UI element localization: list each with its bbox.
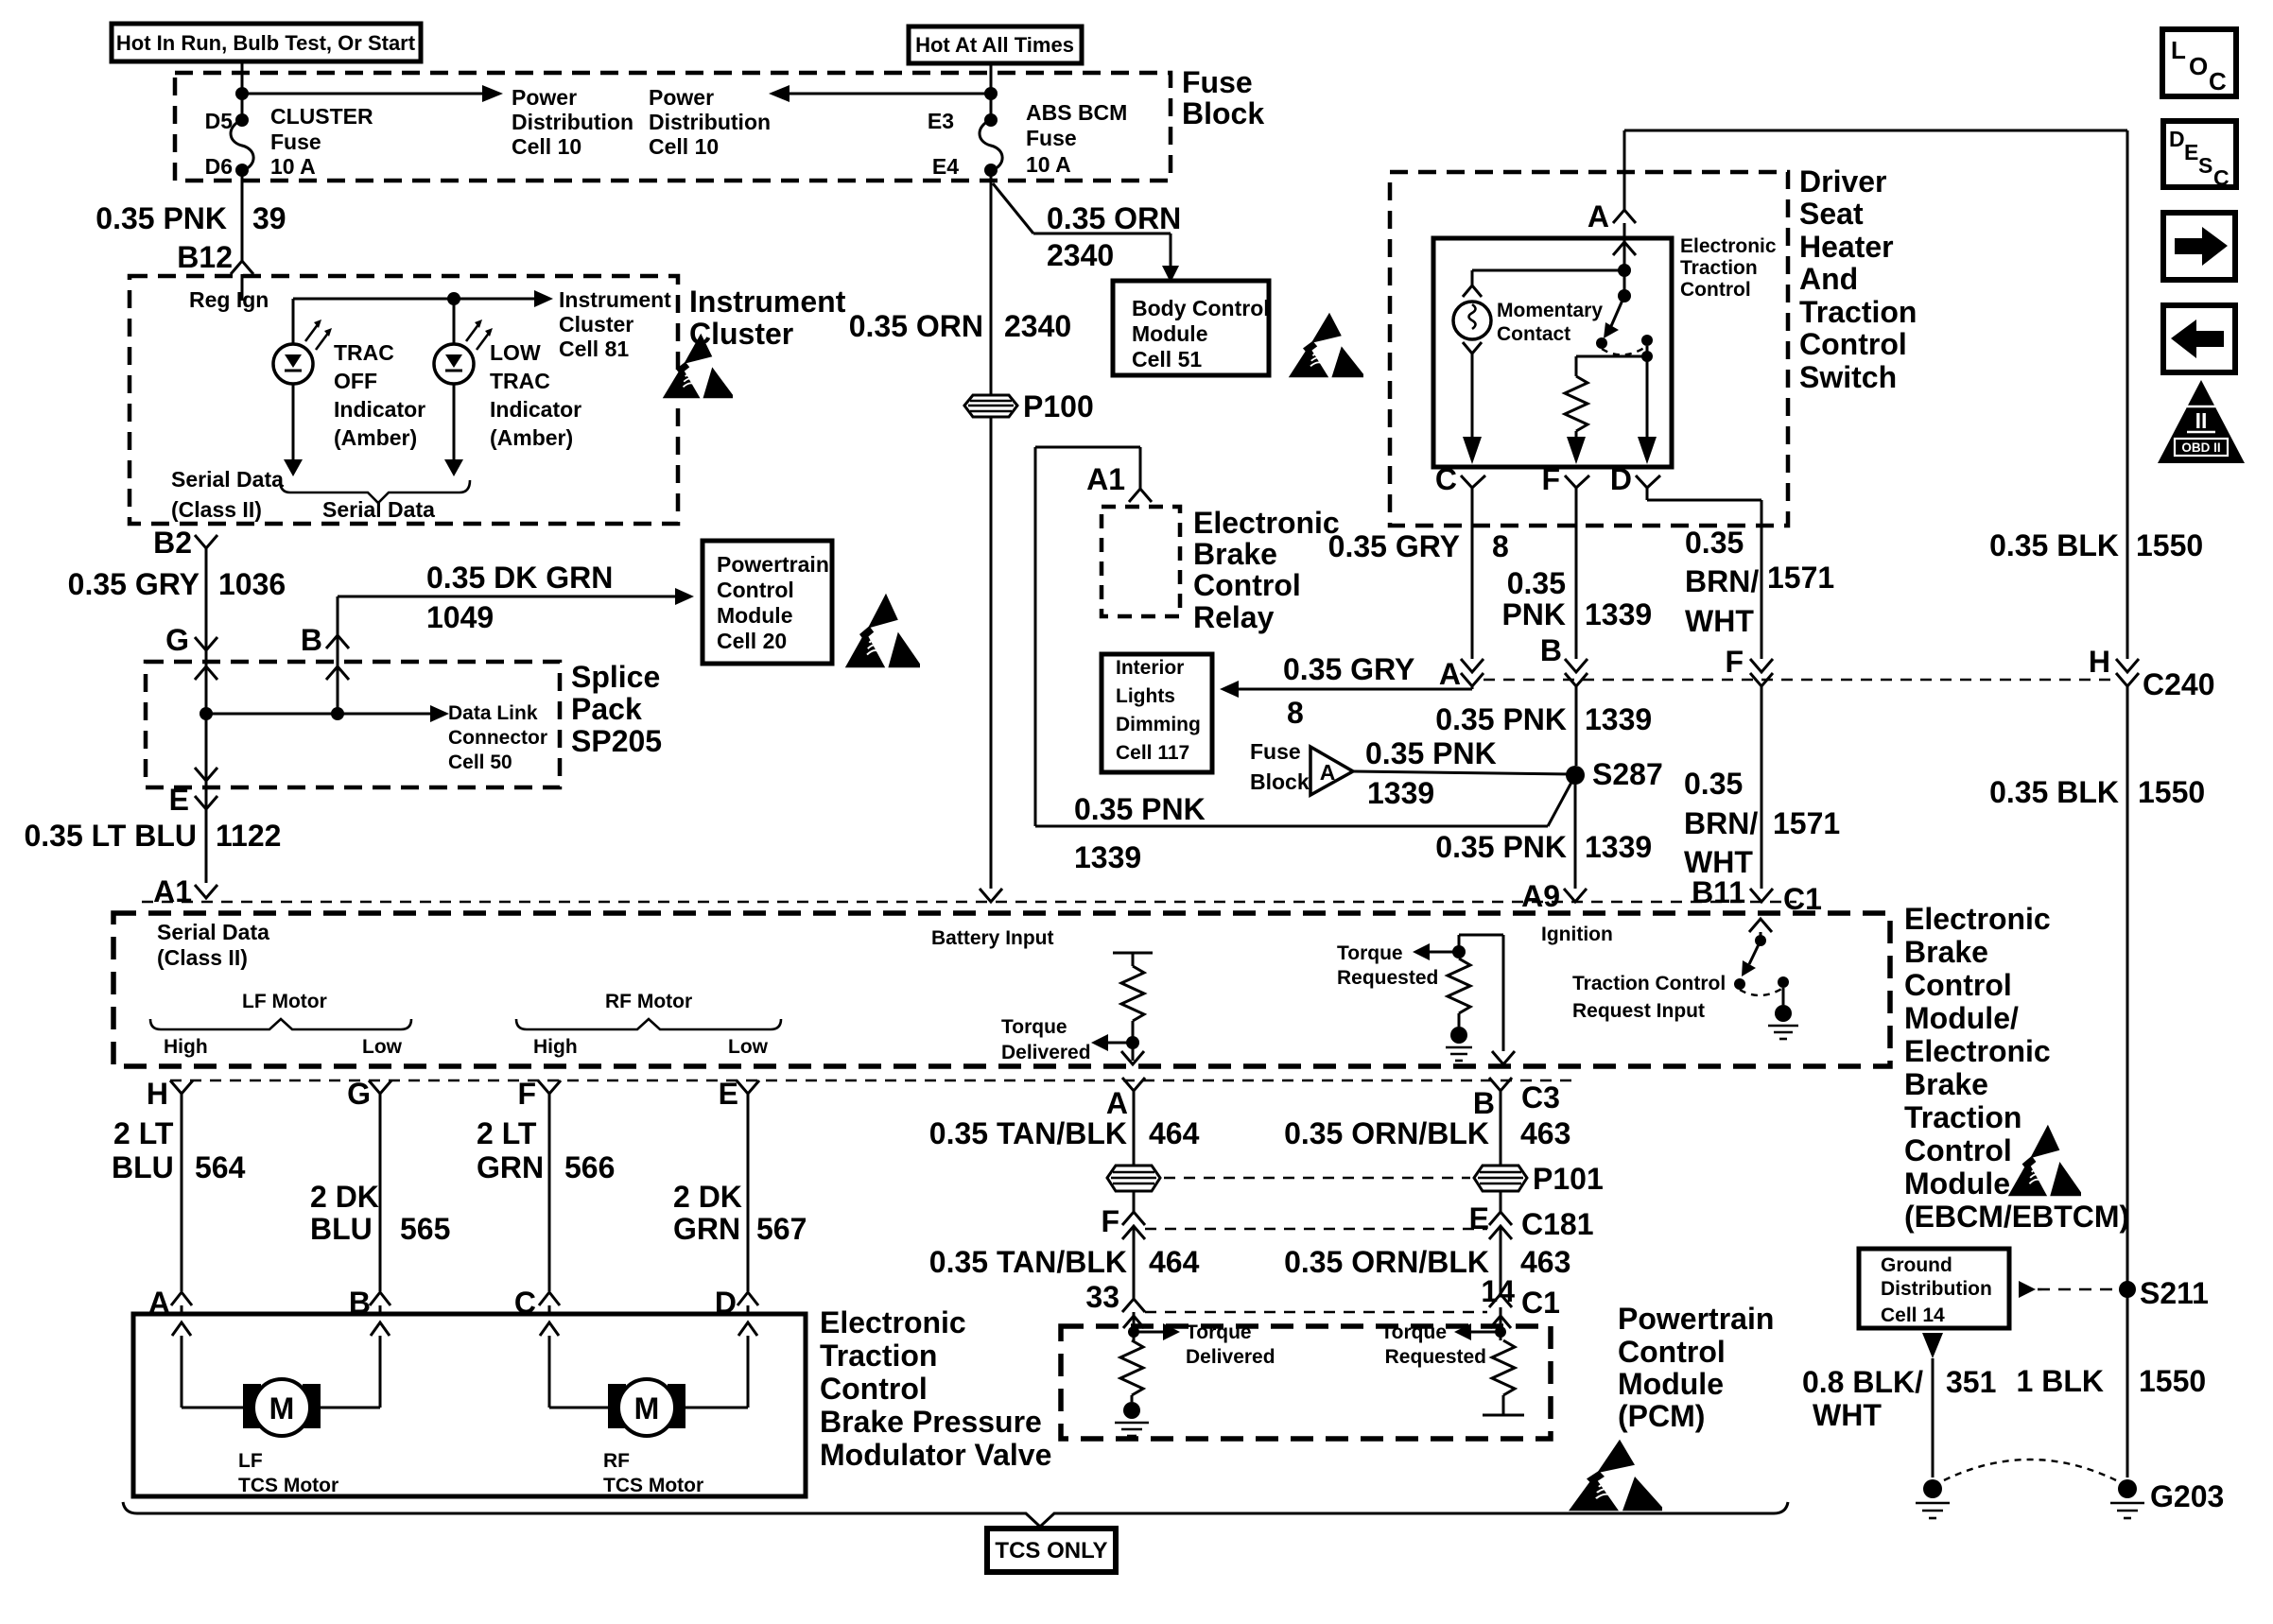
svg-text:Brake: Brake [1904,935,1988,969]
svg-text:Switch: Switch [1799,360,1897,394]
svg-text:C3: C3 [1521,1080,1560,1114]
svg-text:A9: A9 [1521,879,1560,913]
svg-text:1339: 1339 [1367,776,1434,810]
svg-text:0.35 ORN: 0.35 ORN [849,309,983,343]
svg-text:1550: 1550 [2136,528,2203,562]
svg-text:0.35 PNK: 0.35 PNK [1435,830,1567,864]
svg-text:1339: 1339 [1585,830,1652,864]
svg-text:CLUSTER: CLUSTER [270,104,373,129]
svg-text:E: E [2184,140,2198,164]
svg-text:A: A [1106,1086,1128,1120]
svg-text:Powertrain: Powertrain [1618,1302,1774,1336]
svg-text:E: E [719,1077,738,1111]
svg-text:0.35 DK GRN: 0.35 DK GRN [426,561,613,595]
svg-text:H: H [2089,645,2110,679]
svg-text:Battery Input: Battery Input [931,927,1054,949]
svg-text:2 LT: 2 LT [113,1116,174,1150]
svg-text:LF: LF [238,1450,263,1472]
svg-text:8: 8 [1492,529,1509,563]
svg-text:1339: 1339 [1585,597,1652,631]
svg-text:Indicator: Indicator [490,397,581,422]
svg-text:10 A: 10 A [1026,152,1071,177]
svg-text:Cell 50: Cell 50 [448,752,512,773]
svg-text:BRN/: BRN/ [1685,564,1759,598]
svg-text:Module: Module [1618,1367,1724,1401]
svg-text:2 LT: 2 LT [477,1116,537,1150]
svg-text:Fuse: Fuse [1182,65,1253,99]
svg-text:1571: 1571 [1773,806,1840,840]
svg-text:Traction: Traction [1680,257,1758,279]
svg-text:E3: E3 [928,109,954,133]
svg-text:0.35 ORN/BLK: 0.35 ORN/BLK [1284,1245,1489,1279]
svg-text:Interior: Interior [1116,657,1184,679]
svg-text:Control: Control [1904,1133,2012,1167]
svg-text:Serial Data: Serial Data [322,497,435,522]
svg-text:S287: S287 [1592,757,1663,791]
svg-text:Torque: Torque [1337,942,1403,964]
svg-text:(EBCM/EBTCM): (EBCM/EBTCM) [1904,1200,2129,1234]
svg-text:0.35 PNK: 0.35 PNK [1365,736,1497,770]
svg-text:B: B [301,623,322,657]
svg-text:Traction: Traction [1799,295,1917,329]
svg-text:Cell 51: Cell 51 [1132,347,1202,371]
svg-text:Cell 10: Cell 10 [649,134,719,159]
svg-text:High: High [533,1036,578,1058]
svg-text:Control: Control [1799,327,1907,361]
svg-text:D5: D5 [205,109,234,133]
svg-text:0.35 LT BLU: 0.35 LT BLU [24,819,197,853]
svg-text:Relay: Relay [1193,600,1275,634]
svg-text:Traction Control: Traction Control [1572,973,1726,994]
svg-text:E: E [1469,1201,1489,1235]
svg-text:Request Input: Request Input [1572,1000,1705,1022]
svg-text:Traction: Traction [1904,1100,2021,1134]
svg-text:C240: C240 [2143,667,2215,701]
svg-text:BLU: BLU [310,1212,373,1246]
svg-text:Control: Control [1680,279,1751,301]
svg-text:Heater: Heater [1799,230,1894,264]
svg-text:Delivered: Delivered [1186,1346,1275,1368]
svg-text:Seat: Seat [1799,197,1864,231]
svg-text:TRAC: TRAC [490,369,550,393]
svg-text:(Class II): (Class II) [157,945,248,970]
svg-text:F: F [1725,645,1744,679]
svg-text:Fuse: Fuse [270,130,321,154]
svg-text:F: F [1541,462,1560,496]
svg-text:TCS Motor: TCS Motor [238,1475,338,1496]
svg-text:1 BLK: 1 BLK [2017,1364,2104,1398]
svg-text:Electronic: Electronic [1193,506,1340,540]
svg-text:Module: Module [1904,1166,2010,1201]
svg-text:G203: G203 [2150,1479,2224,1513]
svg-text:B: B [1473,1086,1495,1120]
svg-text:Cluster: Cluster [689,317,793,351]
svg-text:Low: Low [362,1036,403,1058]
svg-text:LF Motor: LF Motor [242,991,327,1012]
svg-text:2 DK: 2 DK [310,1180,379,1214]
svg-text:Electronic: Electronic [1680,235,1777,257]
svg-text:O: O [2189,52,2208,80]
svg-text:Lights: Lights [1116,685,1175,707]
svg-text:OBD II: OBD II [2181,441,2220,455]
svg-text:S: S [2198,153,2212,178]
svg-text:G: G [347,1077,371,1111]
svg-text:A1: A1 [153,874,192,908]
svg-text:F: F [517,1077,536,1111]
svg-text:G: G [165,623,189,657]
svg-text:P101: P101 [1533,1162,1604,1196]
svg-text:Fuse: Fuse [1250,739,1301,764]
svg-text:1339: 1339 [1074,840,1141,874]
svg-text:Ignition: Ignition [1541,924,1613,945]
svg-text:A: A [1588,199,1609,233]
svg-text:Control: Control [717,578,794,602]
svg-text:A: A [1439,657,1461,691]
svg-text:464: 464 [1149,1245,1200,1279]
svg-text:564: 564 [195,1150,246,1184]
svg-text:Body Control: Body Control [1132,296,1270,320]
svg-text:L: L [2171,36,2186,64]
svg-text:1571: 1571 [1767,561,1834,595]
svg-text:Control: Control [1904,968,2012,1002]
svg-text:Powertrain: Powertrain [717,552,829,577]
svg-text:8: 8 [1287,696,1304,730]
svg-text:GRN: GRN [673,1212,740,1246]
svg-text:14: 14 [1481,1274,1515,1308]
svg-text:C181: C181 [1521,1207,1594,1241]
svg-text:Instrument: Instrument [689,285,846,319]
svg-text:0.35 GRY: 0.35 GRY [68,567,200,601]
svg-text:S211: S211 [2140,1276,2209,1310]
svg-text:Torque: Torque [1001,1016,1067,1038]
svg-text:GRN: GRN [477,1150,544,1184]
svg-text:Torque: Torque [1380,1322,1447,1343]
svg-text:Cell 81: Cell 81 [559,337,629,361]
svg-text:1049: 1049 [426,600,494,634]
svg-text:Distribution: Distribution [1881,1278,1992,1300]
svg-text:33: 33 [1085,1280,1119,1314]
svg-text:Reg Ign: Reg Ign [189,287,269,312]
svg-text:Control: Control [820,1372,928,1406]
svg-text:0.35 ORN/BLK: 0.35 ORN/BLK [1284,1116,1489,1150]
svg-text:0.35: 0.35 [1685,526,1744,560]
svg-text:ABS BCM: ABS BCM [1026,100,1127,125]
svg-text:1339: 1339 [1585,702,1652,736]
svg-text:351: 351 [1946,1365,1996,1399]
svg-text:2340: 2340 [1047,238,1114,272]
svg-text:D6: D6 [205,154,233,179]
svg-text:0.35 PNK: 0.35 PNK [1074,792,1206,826]
svg-text:Control: Control [1618,1335,1726,1369]
svg-text:H: H [147,1077,168,1111]
svg-text:Delivered: Delivered [1001,1042,1091,1063]
svg-text:Ground: Ground [1881,1254,1952,1276]
svg-text:Contact: Contact [1497,323,1570,345]
svg-text:1550: 1550 [2139,1364,2206,1398]
svg-text:Brake: Brake [1193,537,1277,571]
svg-text:B2: B2 [153,526,192,560]
svg-text:Dimming: Dimming [1116,714,1201,735]
svg-text:Electronic: Electronic [820,1305,966,1339]
svg-text:OFF: OFF [334,369,377,393]
svg-text:(Amber): (Amber) [490,425,573,450]
svg-text:10 A: 10 A [270,154,316,179]
svg-text:SP205: SP205 [571,724,662,758]
svg-text:WHT: WHT [1685,604,1754,638]
svg-text:0.35 TAN/BLK: 0.35 TAN/BLK [929,1245,1127,1279]
svg-text:B12: B12 [177,240,233,274]
svg-text:Splice: Splice [571,660,660,694]
svg-text:RF Motor: RF Motor [605,991,692,1012]
svg-text:C1: C1 [1521,1286,1560,1320]
svg-text:Distribution: Distribution [512,110,633,134]
svg-text:2 DK: 2 DK [673,1180,742,1214]
svg-text:Power: Power [512,85,577,110]
svg-text:Block: Block [1250,769,1310,794]
svg-text:D: D [1610,462,1632,496]
svg-text:Connector: Connector [448,727,547,749]
svg-text:Instrument: Instrument [559,287,671,312]
svg-text:And: And [1799,262,1858,296]
svg-text:A: A [1320,760,1336,785]
svg-text:A1: A1 [1086,462,1125,496]
svg-text:Cell 14: Cell 14 [1881,1304,1945,1326]
svg-text:Traction: Traction [820,1339,937,1373]
svg-text:Torque: Torque [1186,1322,1252,1343]
svg-text:Fuse: Fuse [1026,126,1077,150]
svg-text:PNK: PNK [1501,597,1566,631]
svg-text:Serial Data: Serial Data [157,920,269,944]
svg-text:463: 463 [1520,1116,1570,1150]
svg-text:Cell 117: Cell 117 [1116,742,1189,764]
svg-text:RF: RF [603,1450,630,1472]
svg-text:E: E [169,783,189,817]
svg-text:Module: Module [717,603,793,628]
svg-text:Brake Pressure: Brake Pressure [820,1405,1042,1439]
svg-text:0.35 BLK: 0.35 BLK [1989,775,2119,809]
svg-text:Power: Power [649,85,714,110]
svg-text:Cluster: Cluster [559,312,633,337]
svg-text:2340: 2340 [1004,309,1071,343]
svg-text:Hot At All Times: Hot At All Times [915,33,1074,57]
svg-text:Cell 10: Cell 10 [512,134,581,159]
svg-text:0.35: 0.35 [1507,566,1566,600]
svg-text:Pack: Pack [571,692,642,726]
svg-text:Cell 20: Cell 20 [717,629,787,653]
svg-text:Control: Control [1193,568,1301,602]
svg-text:B11: B11 [1692,875,1745,909]
svg-text:0.35 PNK: 0.35 PNK [95,201,227,235]
svg-text:WHT: WHT [1813,1398,1882,1432]
svg-text:567: 567 [756,1212,807,1246]
svg-text:1550: 1550 [2138,775,2205,809]
svg-text:C: C [1435,462,1457,496]
svg-text:39: 39 [252,201,286,235]
svg-text:(Amber): (Amber) [334,425,417,450]
svg-text:Electronic: Electronic [1904,902,2051,936]
svg-text:F: F [1101,1204,1119,1238]
svg-text:Serial Data: Serial Data [171,467,284,492]
svg-text:WHT: WHT [1684,845,1753,879]
svg-text:Driver: Driver [1799,164,1887,199]
svg-text:C: C [2209,67,2227,95]
svg-text:(PCM): (PCM) [1618,1399,1705,1433]
svg-text:P100: P100 [1023,389,1094,423]
svg-text:TCS ONLY: TCS ONLY [995,1538,1107,1564]
svg-text:0.8 BLK/: 0.8 BLK/ [1802,1365,1923,1399]
svg-text:0.35 TAN/BLK: 0.35 TAN/BLK [929,1116,1127,1150]
svg-text:0.35 BLK: 0.35 BLK [1989,528,2119,562]
svg-text:1036: 1036 [218,567,286,601]
svg-text:(Class II): (Class II) [171,497,262,522]
svg-text:Low: Low [728,1036,769,1058]
svg-text:LOW: LOW [490,340,541,365]
svg-text:0.35 PNK: 0.35 PNK [1435,702,1567,736]
svg-text:Requested: Requested [1385,1346,1486,1368]
svg-text:Indicator: Indicator [334,397,425,422]
svg-text:0.35 ORN: 0.35 ORN [1047,201,1181,235]
svg-text:Distribution: Distribution [649,110,771,134]
svg-text:Electronic: Electronic [1904,1034,2051,1068]
svg-text:M: M [269,1391,295,1425]
svg-text:1122: 1122 [216,819,281,853]
svg-text:Module: Module [1132,321,1208,346]
svg-text:BLU: BLU [112,1150,174,1184]
svg-text:565: 565 [400,1212,450,1246]
svg-text:Hot In Run, Bulb Test, Or Star: Hot In Run, Bulb Test, Or Start [116,31,416,55]
svg-text:Momentary: Momentary [1497,300,1603,321]
svg-text:Modulator Valve: Modulator Valve [820,1438,1051,1472]
svg-text:Brake: Brake [1904,1067,1988,1101]
svg-text:TCS Motor: TCS Motor [603,1475,703,1496]
svg-text:Block: Block [1182,96,1264,130]
svg-text:B: B [1540,633,1562,667]
svg-text:C: C [2213,165,2230,190]
svg-text:II: II [2195,408,2208,433]
svg-text:High: High [164,1036,208,1058]
svg-text:463: 463 [1520,1245,1570,1279]
svg-text:0.35: 0.35 [1684,767,1743,801]
svg-text:Requested: Requested [1337,967,1438,989]
svg-text:D: D [2169,127,2185,151]
svg-text:Module/: Module/ [1904,1001,2019,1035]
svg-text:M: M [634,1391,660,1425]
svg-text:E4: E4 [932,154,959,179]
svg-text:566: 566 [564,1150,615,1184]
svg-text:464: 464 [1149,1116,1200,1150]
svg-text:Data Link: Data Link [448,702,538,724]
svg-text:0.35 GRY: 0.35 GRY [1283,652,1414,686]
svg-text:TRAC: TRAC [334,340,394,365]
svg-text:BRN/: BRN/ [1684,806,1758,840]
svg-text:0.35 GRY: 0.35 GRY [1328,529,1460,563]
svg-text:C1: C1 [1783,882,1822,916]
